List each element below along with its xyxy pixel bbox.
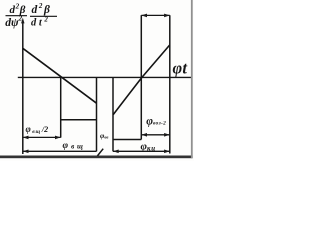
svg-text:dψ2: dψ2 — [5, 15, 22, 30]
rise descending acceleration line — [23, 48, 97, 103]
dimension phi_vsh — [23, 150, 97, 152]
axis label d2b/dt2 — [30, 2, 57, 28]
svg-text:d2β: d2β — [32, 2, 52, 16]
bottom border band — [0, 156, 193, 159]
rectangle 1 bottom edge — [61, 119, 97, 121]
svg-text:φкц: φкц — [141, 141, 156, 153]
svg-text:φt: φt — [173, 59, 188, 78]
dimension phi_vsh/2 — [23, 136, 61, 138]
y-axis arrowhead — [21, 18, 24, 24]
dimension phi_kc — [113, 150, 170, 152]
axis label d2b/dpsi2 — [5, 3, 27, 30]
y-axis — [22, 22, 24, 154]
svg-text:φвщ/2: φвщ/2 — [26, 124, 49, 135]
svg-text:φвв: φвв — [100, 131, 108, 140]
dimension phi_voz-2 — [141, 134, 170, 136]
vertical x=141.3 — [140, 15, 142, 139]
vertical at start of return x=113 — [112, 77, 114, 151]
slash tick — [96, 149, 103, 158]
svg-text:φвщ: φвщ — [63, 141, 86, 151]
top dimension line — [141, 14, 170, 16]
svg-text:φвоз-2: φвоз-2 — [146, 115, 166, 127]
x-axis — [18, 76, 192, 78]
svg-text:dt2: dt2 — [31, 16, 50, 29]
vertical x=169.8 — [169, 15, 171, 153]
rectangle 2 bottom edge — [113, 139, 141, 141]
right page edge line — [191, 0, 193, 158]
return rising acceleration line — [113, 45, 170, 115]
vertical at end of rise x=96.5 — [96, 77, 98, 151]
vertical at mid-rise x=60.7 — [60, 77, 62, 137]
